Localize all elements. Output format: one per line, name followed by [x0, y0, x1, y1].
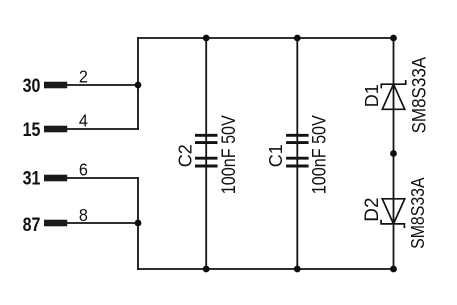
- capacitor C1 plates: [286, 135, 309, 166]
- node: top bus / C2: [203, 35, 210, 42]
- terminal pad 31: [44, 175, 67, 182]
- wire terminal 31: [67, 177, 138, 179]
- wire top bus: [138, 37, 394, 39]
- terminal pad 87: [44, 220, 67, 227]
- svg-text:C1: C1: [266, 144, 286, 167]
- svg-text:C2: C2: [175, 144, 195, 167]
- wire bottom bus: [138, 268, 394, 270]
- capacitor C2 plates: [195, 135, 218, 166]
- node: D1/D2 junction: [390, 150, 397, 157]
- wire terminal 87: [67, 222, 138, 224]
- svg-text:100nF 50V: 100nF 50V: [219, 115, 240, 194]
- svg-text:D1: D1: [362, 84, 382, 107]
- wire left vertical (31/87 join): [137, 178, 139, 269]
- svg-text:6: 6: [79, 159, 88, 179]
- wire left vertical (30/15 join): [137, 38, 139, 129]
- svg-text:4: 4: [79, 110, 88, 130]
- wire terminal 15: [67, 128, 138, 130]
- node: top bus / diode branch: [390, 35, 397, 42]
- node: bottom bus / C1: [294, 266, 301, 273]
- svg-text:SM8S33A: SM8S33A: [409, 57, 430, 134]
- diode D1 (TVS, cathode up): [381, 80, 405, 109]
- node: bottom bus / diode branch: [390, 266, 397, 273]
- diode D2 (TVS, cathode down): [381, 199, 405, 228]
- wire terminal 30: [67, 84, 138, 86]
- node: terminal 30 junction: [135, 82, 142, 89]
- node: terminal 87 junction: [135, 220, 142, 227]
- svg-text:31: 31: [23, 169, 41, 190]
- svg-text:2: 2: [79, 66, 88, 86]
- svg-text:30: 30: [23, 76, 41, 97]
- wire diode branch: [393, 38, 395, 269]
- terminal pad 30: [44, 82, 67, 89]
- wire C1 branch: [296, 38, 298, 269]
- svg-text:SM8S33A: SM8S33A: [407, 177, 428, 249]
- terminal pad 15: [44, 126, 67, 133]
- svg-text:D2: D2: [362, 197, 383, 221]
- node: bottom bus / C2: [203, 266, 210, 273]
- svg-text:100nF 50V: 100nF 50V: [309, 115, 330, 194]
- svg-text:87: 87: [23, 215, 41, 236]
- node: top bus / C1: [294, 35, 301, 42]
- wire C2 branch: [205, 38, 207, 269]
- svg-text:8: 8: [79, 205, 88, 225]
- svg-text:15: 15: [23, 120, 41, 141]
